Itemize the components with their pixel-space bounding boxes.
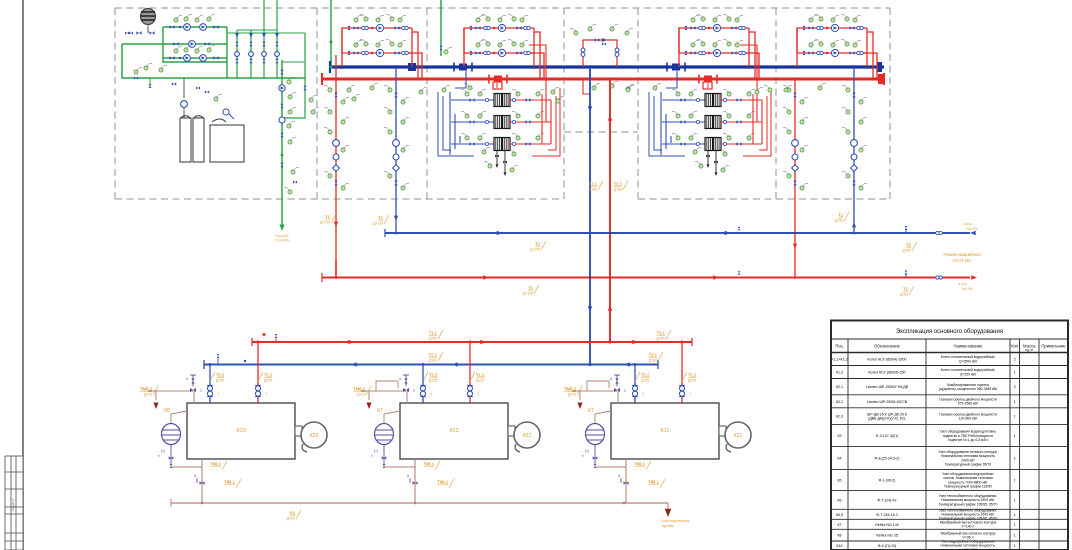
central supply riser T1.1 (red): [609, 79, 611, 342]
svg-text:Т96.1: Т96.1: [210, 462, 221, 467]
header strainer U3 (blue): [667, 63, 685, 72]
bay1 riser flow arrows: [334, 222, 338, 227]
svg-text:3: 3: [689, 392, 691, 396]
svg-text:К13: К13: [236, 428, 245, 434]
svg-text:Точка подключения: Точка подключения: [661, 519, 690, 523]
boiler circuit pump group PG1: [342, 15, 422, 80]
supply drop from boiler К12 (red): [469, 342, 471, 403]
valve pair under tank: [136, 31, 141, 35]
svg-text:3: 3: [217, 392, 219, 396]
svg-text:ДУ89: ДУ89: [835, 219, 843, 223]
svg-text:Reflex NG 35: Reflex NG 35: [876, 534, 898, 538]
svg-text:ТМ6.2: ТМ6.2: [564, 387, 577, 392]
svg-text:Lamtec ШР-250МУ МСДВ: Lamtec ШР-250МУ МСДВ: [866, 385, 909, 389]
svg-text:Т1: Т1: [325, 215, 331, 220]
svg-text:Т2: Т2: [378, 216, 384, 221]
svg-text:ДУ80: ДУ80: [614, 188, 622, 192]
svg-text:Т1.1: Т1.1: [657, 331, 666, 336]
central return riser T2.1 (blue): [589, 67, 591, 364]
boiler К13 drain pipe: [201, 459, 203, 503]
svg-text:К2,3: К2,3: [836, 415, 843, 419]
svg-text:1: 1: [1014, 457, 1016, 461]
boiler return header (blue): [204, 364, 658, 366]
make-up valves at К11: [587, 381, 609, 391]
svg-text:Q=3500 кВт: Q=3500 кВт: [959, 359, 978, 363]
svg-text:к а.м.: к а.м.: [964, 222, 973, 226]
svg-text:ДУ80: ДУ80: [649, 359, 657, 363]
svg-text:0х1 Ра: 0х1 Ра: [967, 227, 978, 231]
svg-text:ДУ25: ДУ25: [476, 379, 484, 383]
svg-text:Т2.1: Т2.1: [649, 353, 658, 358]
svg-text:Т2: Т2: [906, 243, 912, 248]
svg-text:ДУ80: ДУ80: [429, 359, 437, 363]
svg-text:ДУ25: ДУ25: [641, 379, 649, 383]
dashed equipment-bay boundaries: [115, 8, 890, 199]
header strainer U1 (blue): [454, 63, 472, 72]
svg-text:Т96.1: Т96.1: [224, 480, 235, 485]
district line labels: [530, 241, 546, 252]
district line valves: [936, 231, 943, 234]
svg-text:ДУ159: ДУ159: [320, 221, 330, 225]
svg-text:120-900 кВт: 120-900 кВт: [959, 417, 978, 421]
return drop to boiler К11 (blue): [634, 365, 636, 404]
svg-text:ДУ25: ДУ25: [568, 393, 576, 397]
expansion tank К7: [384, 411, 400, 424]
svg-text:Экспликация основного оборудов: Экспликация основного оборудования: [896, 329, 1003, 335]
svg-text:Reflex NG 140: Reflex NG 140: [875, 523, 899, 527]
svg-text:К2,2: К2,2: [836, 400, 843, 404]
boiler circulation pump К22: [508, 426, 515, 436]
svg-text:Т1.1: Т1.1: [589, 182, 598, 187]
svg-text:Т96.1: Т96.1: [437, 480, 448, 485]
return drop to boiler К12 (blue): [422, 365, 424, 404]
svg-text:1: 1: [1014, 544, 1016, 548]
lower header labels: [429, 330, 443, 341]
svg-text:К5: К5: [837, 479, 841, 483]
make-up connection point arrow: [279, 225, 284, 231]
svg-text:Т1.2: Т1.2: [476, 373, 485, 378]
svg-text:К11: К11: [661, 428, 670, 434]
svg-text:ДУ80: ДУ80: [657, 337, 665, 341]
svg-text:дренаж: дренаж: [662, 524, 674, 528]
svg-text:2: 2: [413, 389, 415, 393]
svg-text:[=): [=): [374, 449, 378, 453]
svg-text:1: 1: [1014, 479, 1016, 483]
svg-text:К4: К4: [837, 457, 841, 461]
svg-text:ТМ6.2: ТМ6.2: [140, 387, 153, 392]
svg-text:ДУ89: ДУ89: [903, 249, 911, 253]
svg-text:0,12 МПа: 0,12 МПа: [275, 239, 289, 243]
drain connection point arrow: [665, 509, 672, 517]
svg-text:1: 1: [1014, 415, 1016, 419]
svg-text:Ф-3-107-3(01): Ф-3-107-3(01): [876, 434, 899, 438]
svg-text:2: 2: [1014, 358, 1016, 362]
make-up valves at К12: [376, 381, 398, 391]
drain point arrow at К13: [153, 403, 158, 409]
svg-text:2: 2: [624, 389, 626, 393]
lower header junctions: [608, 340, 611, 343]
svg-text:ДУ25: ДУ25: [357, 393, 365, 397]
svg-text:ДУ159: ДУ159: [530, 248, 540, 252]
svg-text:Точка М2: Точка М2: [275, 234, 289, 238]
water-treatment pump row 1: [169, 15, 218, 31]
svg-text:1: 1: [1014, 523, 1016, 527]
svg-text:2: 2: [200, 389, 202, 393]
boiler К11 drain pipe: [625, 459, 627, 503]
header safety stubs: [263, 333, 266, 336]
svg-text:3: 3: [430, 392, 432, 396]
booster pump row: [173, 42, 178, 46]
svg-text:Режим аварийный: Режим аварийный: [943, 252, 981, 257]
heat exchanger unit HX2: [649, 45, 771, 176]
title block stamp (bottom-left): [5, 456, 23, 550]
header junction dots: [340, 65, 343, 68]
svg-text:К1,1+К1,2: К1,1+К1,2: [831, 358, 847, 362]
svg-text:1: 1: [1014, 434, 1016, 438]
svg-text:Обозначение: Обозначение: [874, 344, 901, 349]
svg-text:1: 1: [1014, 400, 1016, 404]
junction dots: [589, 232, 592, 235]
svg-text:ДУ25: ДУ25: [429, 379, 437, 383]
expansion tank К7: [595, 411, 611, 424]
bay5 return riser with fittings: [842, 67, 867, 234]
svg-text:ед, кг: ед, кг: [1025, 348, 1034, 352]
svg-text:К2,1: К2,1: [836, 385, 843, 389]
svg-text:К6: К6: [837, 498, 841, 502]
svg-text:К7: К7: [377, 408, 383, 414]
svg-text:Т2.2: Т2.2: [216, 373, 225, 378]
return drop to boiler К13 (blue): [209, 365, 211, 404]
drain point arrow at К12: [366, 403, 371, 409]
make-up circuit ТМ6.2 at К12: [361, 390, 406, 392]
svg-text:2: 2: [1014, 385, 1016, 389]
svg-text:Кол: Кол: [1011, 344, 1019, 349]
svg-text:Т96.1: Т96.1: [423, 462, 434, 467]
header strainer U2 (red): [489, 75, 507, 84]
svg-text:Т2: Т2: [535, 242, 541, 247]
svg-text:ã: ã: [186, 377, 188, 381]
svg-text:Котел КСУ (85/64)-3500: Котел КСУ (85/64)-3500: [868, 358, 907, 362]
boiler К11: [611, 403, 719, 459]
svg-text:К10: К10: [836, 544, 842, 548]
svg-text:ã: ã: [610, 377, 612, 381]
make-up circuit ТМ6.2 at К13: [148, 390, 193, 392]
svg-text:Т2.1: Т2.1: [429, 353, 438, 358]
svg-text:К23: К23: [310, 433, 319, 439]
svg-text:Ф-8,(25-24-3-2): Ф-8,(25-24-3-2): [875, 457, 900, 461]
svg-text:ДУ25: ДУ25: [688, 379, 696, 383]
svg-text:К8: К8: [837, 534, 841, 538]
tank drain valve К7: [383, 445, 385, 467]
svg-text:1: 1: [1014, 534, 1016, 538]
svg-text:Примечание: Примечание: [1041, 344, 1066, 349]
header valve block: [408, 63, 416, 71]
svg-text:[=): [=): [161, 449, 165, 453]
svg-text:ДУ25: ДУ25: [264, 379, 272, 383]
svg-text:Т1.2: Т1.2: [688, 373, 697, 378]
network pump group PG3: [679, 15, 759, 80]
svg-text:Т1: Т1: [528, 286, 534, 291]
heat exchanger unit HX1: [438, 45, 560, 176]
make-up valves at К13: [190, 388, 196, 392]
tank drain valve К8: [170, 445, 172, 467]
svg-text:[=): [=): [585, 449, 589, 453]
instrument on manifold: [134, 68, 142, 75]
bay5 riser flow arrows: [793, 244, 797, 249]
header instrumentation taps: [347, 86, 355, 93]
common drain line К2: [201, 502, 204, 505]
boiler circulation pump К23: [295, 426, 302, 436]
svg-text:ДУ159: ДУ159: [373, 222, 383, 226]
district supply line (red): [322, 277, 970, 279]
svg-text:Т2.2: Т2.2: [429, 373, 438, 378]
svg-text:К7: К7: [588, 408, 594, 414]
svg-text:Ф-Т-245-16,2: Ф-Т-245-16,2: [876, 513, 898, 517]
svg-text:Т2: Т2: [838, 213, 844, 218]
boiler supply header (red): [252, 341, 692, 343]
svg-text:Температурный график 95/70: Температурный график 95/70: [945, 463, 992, 467]
svg-text:Т1.2: Т1.2: [264, 373, 273, 378]
district return line (blue): [385, 232, 970, 234]
svg-text:ДУ159: ДУ159: [523, 292, 533, 296]
supply drop from boiler К13 (red): [257, 342, 259, 403]
expansion tank (water treatment): [141, 9, 156, 34]
svg-text:V=140 л: V=140 л: [962, 525, 975, 529]
make-up circuit ТМ6.2 at К11: [572, 390, 617, 392]
svg-text:К2: К2: [290, 511, 296, 516]
svg-text:Температурный график 115/90: Температурный график 115/90: [944, 485, 992, 489]
water-treatment pump row 2: [169, 46, 218, 62]
svg-text:575-2585 кВт: 575-2585 кВт: [958, 402, 979, 406]
svg-text:Lamtec ШР-250М-МССВ: Lamtec ШР-250М-МССВ: [867, 400, 908, 404]
svg-text:ã: ã: [407, 474, 409, 478]
svg-text:Ф-4-(П)-19): Ф-4-(П)-19): [878, 544, 897, 548]
svg-text:ДУ25: ДУ25: [216, 379, 224, 383]
svg-text:ã: ã: [618, 474, 620, 478]
svg-text:1: 1: [1014, 371, 1016, 375]
svg-text:ДУ25: ДУ25: [144, 393, 152, 397]
svg-text:Т1: Т1: [903, 287, 909, 292]
svg-text:3: 3: [477, 392, 479, 396]
bay1 supply riser with fittings: [324, 55, 349, 277]
svg-text:Т2.2: Т2.2: [641, 373, 650, 378]
svg-text:Котел КСУ (85/64)-250: Котел КСУ (85/64)-250: [869, 371, 906, 375]
svg-text:ДУ40: ДУ40: [287, 517, 295, 521]
green feed pipe to headers: [330, 0, 332, 67]
svg-text:К1,3: К1,3: [836, 371, 843, 375]
return header T2 (dark blue): [330, 65, 884, 68]
svg-text:3: 3: [642, 392, 644, 396]
expansion tank К8: [171, 411, 187, 424]
svg-text:Т96.1: Т96.1: [648, 480, 659, 485]
svg-text:К7: К7: [837, 523, 841, 527]
svg-text:Ф-Т-(24)-42: Ф-Т-(24)-42: [878, 498, 897, 502]
boiler К12: [400, 403, 508, 459]
svg-text:К8: К8: [164, 408, 170, 414]
svg-text:(щ/дизель), мощностью 950-3485: (щ/дизель), мощностью 950-3485 кВт: [939, 387, 998, 391]
supply header T1 (red): [322, 78, 884, 81]
tank drain valve К7: [594, 445, 596, 467]
svg-text:(ДВБ-ДК)(2-К)(2,4), К2),: (ДВБ-ДК)(2-К)(2,4), К2),: [868, 417, 906, 421]
green make-up water manifold piping: [122, 27, 319, 118]
svg-text:1: 1: [1014, 513, 1016, 517]
drain stub: [149, 78, 151, 88]
svg-text:Т2.1: Т2.1: [614, 182, 623, 187]
boiler circuit pump group PG4: [797, 15, 877, 80]
svg-text:ДУ80: ДУ80: [589, 188, 597, 192]
riser labels T1.1 T2.1: [589, 181, 603, 192]
svg-text:ã: ã: [399, 377, 401, 381]
svg-text:подпитке N=1 до 0,8 м3/ч: подпитке N=1 до 0,8 м3/ч: [948, 438, 988, 442]
drawing frame left border: [22, 0, 24, 550]
chemical dosing tanks: [172, 78, 244, 162]
equipment schedule table: [831, 321, 1068, 550]
supply riser elbow: [335, 260, 337, 278]
svg-text:Q=250 кВт: Q=250 кВт: [960, 372, 977, 376]
svg-text:К3: К3: [837, 434, 841, 438]
svg-text:ТМ6.2: ТМ6.2: [353, 387, 366, 392]
svg-text:0х1 Ра: 0х1 Ра: [962, 287, 973, 291]
bay1 return riser with fittings: [384, 67, 409, 233]
svg-text:Ф-1-(95-2): Ф-1-(95-2): [879, 479, 896, 483]
header strainer U4 (red): [699, 75, 717, 84]
svg-text:стадия П: стадия П: [11, 499, 15, 512]
svg-text:ã: ã: [194, 474, 196, 478]
instrument pair near dosing: [214, 95, 222, 102]
svg-text:Поз.: Поз.: [835, 344, 843, 349]
svg-text:К21: К21: [734, 433, 743, 439]
riser bottom fittings: [291, 168, 299, 175]
pressure maintenance bypass arch: [570, 25, 634, 95]
svg-text:К12: К12: [449, 428, 458, 434]
svg-text:к а.м.: к а.м.: [959, 282, 968, 286]
svg-text:Т1.1: Т1.1: [429, 331, 438, 336]
supply drop from boiler К11 (red): [681, 342, 683, 403]
svg-text:Температурный график 195/95, 9: Температурный график 195/95, 95/70: [939, 502, 998, 506]
bay5 supply riser with fittings: [783, 79, 808, 278]
feed-water riser group with valves: [235, 0, 280, 78]
drain point arrow at К11: [577, 403, 582, 409]
treated water riser with valves: [279, 60, 305, 226]
svg-text:1: 1: [1014, 498, 1016, 502]
boiler К13: [187, 403, 295, 459]
green pipe bay2: [440, 0, 442, 56]
svg-text:3: 3: [265, 392, 267, 396]
svg-text:Наименование: Наименование: [953, 344, 983, 349]
svg-text:К22: К22: [523, 433, 532, 439]
svg-text:К6,5: К6,5: [836, 513, 843, 517]
network pump group PG2: [464, 15, 544, 80]
boiler circulation pump К21: [719, 426, 726, 436]
svg-text:ДУ80: ДУ80: [429, 337, 437, 341]
boiler К12 drain pipe: [414, 459, 416, 503]
svg-text:Т96.1: Т96.1: [634, 462, 645, 467]
svg-text:ДУ89: ДУ89: [900, 293, 908, 297]
svg-text:2х7/3 кВт: 2х7/3 кВт: [953, 258, 972, 263]
